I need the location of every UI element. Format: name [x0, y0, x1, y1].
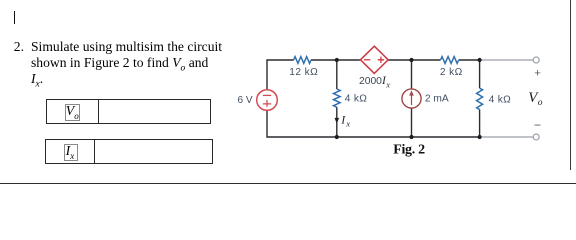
label 2000Ix — [359, 75, 390, 89]
svg-text:4 kΩ: 4 kΩ — [345, 94, 367, 105]
wire: 2mA branch lower — [411, 108, 413, 137]
current source I1 2 mA (circle) — [402, 89, 421, 108]
node F bottom of right branch — [478, 135, 482, 139]
answer box Vo label field — [65, 104, 81, 120]
dependent source minus sign — [364, 59, 370, 61]
svg-text:−: − — [534, 118, 541, 132]
svg-text:o: o — [538, 98, 543, 108]
wire: top rail diamond to 2k — [388, 59, 441, 61]
label Ix in box — [66, 143, 75, 161]
problem statement line 2 — [31, 55, 208, 77]
node A top of mid branch — [335, 58, 339, 62]
wire: left branch top (source to top-left corner and top rail to 12k) — [267, 60, 294, 90]
svg-text:6 V: 6 V — [238, 95, 253, 106]
wire: right branch upper — [479, 60, 481, 88]
svg-text:2000: 2000 — [359, 76, 382, 87]
page rule: bottom horizontal line — [0, 183, 576, 185]
terminal bottom (open circle) — [533, 134, 539, 140]
answer box Ix label field — [64, 144, 79, 161]
svg-text:x: x — [345, 119, 350, 129]
svg-text:+: + — [534, 68, 540, 80]
svg-text:Fig. 2: Fig. 2 — [393, 143, 425, 158]
wire: mid branch upper — [336, 60, 338, 89]
svg-text:2 mA: 2 mA — [425, 94, 449, 105]
svg-text:12 kΩ: 12 kΩ — [289, 67, 318, 78]
resistor R3 4 kOhm mid (vertical zigzag) — [333, 89, 340, 107]
voltage source V1 minus sign — [263, 94, 271, 96]
dependent source plus sign — [378, 57, 384, 63]
current source arrow — [409, 90, 414, 105]
node B top of 2mA branch — [409, 58, 413, 62]
wire: top rail 12k to diamond — [311, 59, 361, 61]
text cursor bar — [14, 11, 15, 24]
voltage source V1 6V (circle) — [257, 90, 278, 111]
node C top of right branch — [478, 58, 482, 62]
answer box Vo outer — [46, 99, 211, 124]
current arrow Ix (arrowhead on mid branch) — [335, 118, 340, 124]
svg-text:x: x — [385, 80, 390, 89]
node D bottom of mid branch — [335, 135, 339, 139]
voltage source V1 plus sign — [263, 100, 271, 107]
wire: 2mA branch upper — [411, 60, 413, 89]
label Vo in box — [66, 103, 79, 121]
resistor R4 4 kOhm right (vertical zigzag) — [477, 88, 483, 109]
wire: left branch bottom and bottom rail — [267, 110, 480, 137]
wire: right branch lower — [479, 110, 481, 138]
terminal top (open circle) — [533, 57, 539, 63]
svg-text:2 kΩ: 2 kΩ — [440, 67, 463, 78]
answer box Vo divider — [98, 99, 99, 123]
dependent source 2000Ix (diamond) — [360, 46, 388, 73]
wire: top rail 2k to right node — [459, 59, 480, 61]
problem statement line 3 — [31, 71, 43, 93]
node E bottom of 2mA branch — [409, 135, 413, 139]
resistor R1 12 kOhm (horizontal zigzag) — [294, 57, 311, 64]
svg-text:4 kΩ: 4 kΩ — [489, 94, 511, 105]
answer box Ix divider — [94, 139, 95, 163]
wire: gray stub to top terminal — [480, 59, 533, 61]
resistor R2 2 kOhm (horizontal zigzag) — [441, 57, 459, 64]
label Ix — [340, 112, 350, 128]
label Vo — [528, 90, 543, 108]
problem statement line 1 — [14, 39, 222, 55]
wire: gray stub to bottom terminal — [480, 136, 533, 138]
page rule: right vertical line — [570, 0, 571, 170]
wire: mid branch lower with Ix — [336, 107, 338, 137]
answer box Ix outer — [45, 139, 213, 164]
circuit schematic — [0, 0, 576, 187]
